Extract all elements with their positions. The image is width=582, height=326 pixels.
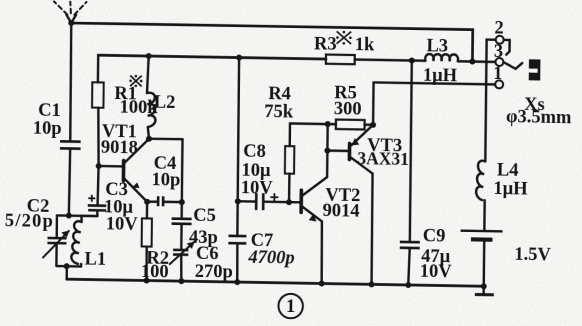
svg-text:5/20p: 5/20p [5, 211, 54, 232]
inductor L4 [476, 161, 485, 230]
svg-text:10V: 10V [420, 262, 453, 283]
node R2 bottom junction [144, 277, 150, 283]
wire supply rail left segment R1 to R3 [98, 55, 326, 59]
node tank bottom junction [64, 263, 70, 269]
svg-text:100: 100 [141, 262, 169, 282]
resistor R2 [141, 202, 152, 281]
resistor R1 [91, 55, 104, 166]
inductor L2 [147, 56, 157, 139]
svg-text:2: 2 [494, 18, 503, 38]
node battery ground junction [481, 283, 487, 289]
capacitor C3 [88, 195, 107, 217]
svg-text:3: 3 [494, 42, 503, 62]
svg-text:4700p: 4700p [247, 248, 294, 269]
node antenna junction [68, 20, 74, 26]
capacitor C2 (variable) [42, 215, 69, 266]
svg-text:100k: 100k [120, 98, 159, 119]
svg-text:9014: 9014 [323, 201, 360, 222]
node C9 bottom junction [405, 282, 411, 288]
wire bottom ground rail [67, 279, 484, 286]
svg-text:φ3.5mm: φ3.5mm [506, 107, 572, 128]
svg-text:75k: 75k [264, 102, 294, 122]
capacitor C6 (variable) [169, 241, 195, 281]
wire VT2 collector vertical [302, 124, 327, 196]
node C6 bottom junction [178, 278, 184, 284]
svg-text:1: 1 [493, 64, 502, 84]
jack plug symbol [529, 59, 541, 80]
wire R3 right to L3 [355, 60, 426, 61]
svg-text:10V: 10V [106, 215, 139, 236]
svg-text:10p: 10p [151, 170, 180, 190]
wire tank bottom [56, 265, 81, 268]
capacitor C9 [399, 60, 421, 285]
inductor L1 [71, 216, 81, 267]
label R1 asterisk mark [129, 75, 142, 88]
node VT1 collector / L2 bottom junction [146, 136, 152, 142]
node VT1 emitter junction [144, 199, 150, 205]
svg-text:1k: 1k [355, 35, 375, 55]
wire tank to ground rail [65, 266, 68, 279]
label R3 asterisk mark [336, 31, 352, 45]
transistor VT1 [98, 138, 149, 202]
svg-text:1μH: 1μH [423, 66, 458, 87]
svg-text:L1: L1 [84, 249, 106, 269]
svg-text:1: 1 [286, 297, 295, 317]
svg-text:270p: 270p [195, 262, 233, 283]
jack Xs pin 3 terminal [495, 58, 522, 69]
svg-text:C5: C5 [193, 206, 216, 226]
wire top rail antenna to right corner [71, 23, 473, 62]
transistor VT2 [301, 190, 322, 221]
resistor R4 [285, 123, 295, 202]
wire VT2 emitter to ground [321, 221, 322, 283]
resistor R5 [336, 120, 373, 130]
node VT1 base junction [96, 163, 102, 169]
wire to jack pin 3 [472, 60, 495, 63]
svg-text:L2: L2 [154, 93, 176, 113]
node C7 column top junction [236, 55, 242, 61]
svg-text:L4: L4 [497, 161, 519, 181]
svg-text:3AX31: 3AX31 [357, 148, 409, 169]
wire L3 right to corner [458, 60, 473, 63]
node L3 left / C9 column junction [409, 57, 415, 63]
capacitor C8 [238, 193, 300, 211]
antenna [54, 1, 87, 23]
inductor L3 [425, 54, 458, 61]
capacitor C1 [59, 23, 82, 216]
capacitor C7 [228, 57, 248, 282]
resistor R3 [326, 55, 355, 65]
wire L2 bottom to C5 column [149, 137, 183, 140]
node C8 tap junction [235, 198, 241, 204]
svg-text:10V: 10V [241, 178, 274, 199]
wire C3 bottom to tank top [82, 215, 98, 218]
svg-text:1.5V: 1.5V [514, 245, 551, 266]
svg-text:9018: 9018 [101, 138, 138, 159]
node top-rail/L3/pin3 junction [469, 58, 475, 64]
transistor VT3 [349, 124, 373, 173]
svg-text:1μH: 1μH [493, 179, 528, 200]
jack Xs pin 2 terminal [485, 36, 509, 162]
capacitor C5 [171, 219, 191, 251]
wire C5 column upper [180, 139, 183, 219]
wire VT3 collector to ground [371, 174, 372, 285]
capacitor C4 [147, 196, 182, 207]
svg-text:300: 300 [334, 99, 362, 119]
wire VT2 collector rail [290, 122, 336, 125]
node L2 top junction [146, 53, 152, 59]
node R5 right / VT3 emitter junction [370, 122, 376, 128]
svg-text:C9: C9 [423, 226, 446, 246]
jack Xs pin 1 terminal [495, 80, 503, 88]
wire tank top [57, 214, 98, 217]
node R4 bottom junction [286, 199, 292, 205]
wire VT3 base [327, 149, 348, 152]
node C1 bottom junction [66, 213, 72, 219]
node VT3 collector ground junction [369, 281, 375, 287]
svg-text:C8: C8 [243, 142, 266, 162]
svg-text:R3: R3 [314, 34, 337, 54]
wire R1 column to C3 [98, 166, 99, 206]
node VT2 emitter ground junction [319, 280, 325, 286]
circled figure number 1 [278, 294, 303, 319]
node VT3 base tap junction [324, 148, 330, 154]
svg-text:L3: L3 [426, 36, 448, 56]
node VT2 collector rail junction [325, 121, 331, 127]
wire VT3 emitter junction up to pin1 wire [372, 82, 375, 124]
svg-text:10p: 10p [33, 119, 62, 139]
node C7 bottom junction [234, 279, 240, 285]
battery 1.5V [460, 231, 503, 287]
ground [475, 286, 494, 295]
wire to jack pin 1 [374, 82, 496, 84]
node C4 right junction [179, 199, 185, 205]
